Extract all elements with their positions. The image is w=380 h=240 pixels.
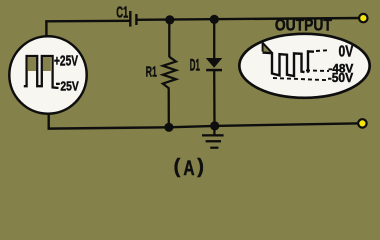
svg-text:OUTPUT: OUTPUT (275, 17, 332, 35)
output waveform (263, 43, 330, 80)
R1 top lead (168, 20, 170, 57)
start arrow barb (262, 43, 264, 52)
start arrow olive fill (264, 45, 271, 52)
ground (202, 126, 224, 149)
svg-text:-50V: -50V (328, 70, 354, 85)
dashed -48V line (306, 69, 329, 72)
R1 bottom lead (168, 88, 170, 127)
D1 top lead (213, 19, 215, 58)
wire left vertical into source top (45, 21, 47, 39)
svg-text:): ) (197, 156, 204, 178)
dashed -50V line (273, 78, 329, 80)
D1 triangle (anode) (206, 58, 223, 68)
svg-text:D1: D1 (190, 56, 200, 75)
svg-text:0V: 0V (339, 43, 354, 60)
node junction dot top R1 (165, 15, 174, 24)
source V1 circle (9, 36, 86, 113)
node junction dot bottom R1 (164, 123, 173, 132)
R1 zigzag (163, 57, 176, 89)
label -25V (56, 83, 60, 85)
olive window pulse 1 (28, 57, 36, 71)
svg-text:(: ( (174, 156, 181, 178)
output ellipse (239, 34, 369, 98)
terminal top right (359, 14, 367, 22)
svg-text:A: A (183, 157, 194, 180)
svg-text:C1: C1 (116, 5, 128, 22)
label (A) (174, 156, 204, 180)
svg-text:25V: 25V (60, 79, 79, 94)
olive window pulse 2 (43, 57, 51, 71)
svg-text:R1: R1 (146, 64, 157, 81)
node junction dot top D1 (210, 15, 219, 24)
wire source bottom vertical (49, 112, 169, 129)
waveform trace (263, 51, 315, 76)
diode D1 (206, 19, 223, 126)
start arrow shaft (263, 43, 272, 53)
terminal bottom right (358, 119, 366, 127)
square wave trace (24, 56, 59, 88)
D1 bottom lead (213, 70, 216, 126)
capacitor C1 (130, 11, 136, 27)
D1 cathode bar (206, 69, 222, 72)
C1 right plate (135, 14, 137, 25)
resistor R1 (163, 20, 176, 127)
wire bottom bus (169, 123, 363, 127)
source square-wave glyph (24, 56, 59, 88)
wire top from capacitor to right terminal (137, 18, 362, 20)
node junction dot bottom D1 (210, 121, 219, 130)
wire top left horizontal to capacitor (45, 20, 130, 23)
svg-text:+25V: +25V (54, 53, 78, 69)
C1 left plate (129, 11, 131, 27)
dashed 0V line (316, 49, 329, 52)
